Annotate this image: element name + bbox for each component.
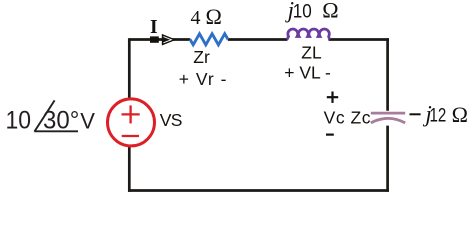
svg-text:4 Ω: 4 Ω xyxy=(191,4,222,29)
svg-text:Zr: Zr xyxy=(193,47,210,67)
svg-text:12: 12 xyxy=(430,106,447,127)
source minus xyxy=(122,135,139,137)
wire right vertical upper xyxy=(386,38,389,111)
svg-text:Ω: Ω xyxy=(452,102,468,127)
wire right vertical lower xyxy=(386,126,389,192)
svg-text:Ω: Ω xyxy=(322,0,338,23)
source plus xyxy=(122,113,140,115)
svg-text:V: V xyxy=(80,108,95,133)
svg-text:10: 10 xyxy=(6,106,32,134)
capacitor Zc xyxy=(371,113,405,123)
wire left vertical lower xyxy=(128,146,131,192)
polarity - for Vc xyxy=(326,134,334,136)
polarity + for Vc xyxy=(327,96,338,98)
wire top rail right segment xyxy=(329,38,389,41)
inductor ZL xyxy=(287,29,330,40)
angle symbol xyxy=(34,100,54,131)
current arrow I xyxy=(150,34,176,46)
wire left vertical upper xyxy=(128,38,131,99)
wire bottom rail xyxy=(128,189,389,192)
svg-text:10: 10 xyxy=(293,1,312,22)
wire top rail left segment xyxy=(129,38,190,41)
resistor Zr xyxy=(190,34,228,45)
source value 10/30 V xyxy=(6,100,96,134)
svg-text:VS: VS xyxy=(160,110,182,130)
value -j12 Ohm xyxy=(410,113,421,115)
svg-text:I: I xyxy=(150,17,158,38)
svg-text:Vc Zc: Vc Zc xyxy=(324,108,371,128)
svg-text:+ Vr -: + Vr - xyxy=(179,69,228,89)
source VS circle xyxy=(108,99,155,146)
wire top rail between resistor and inductor xyxy=(228,38,288,41)
svg-text:+ VL -: + VL - xyxy=(284,62,331,82)
svg-text:ZL: ZL xyxy=(301,43,322,63)
